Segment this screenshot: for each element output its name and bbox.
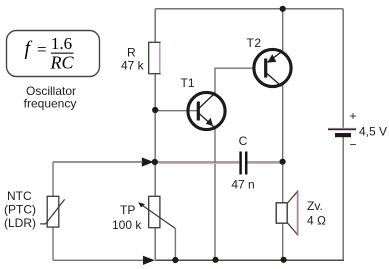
wire: NTC branch top horizontal [53,161,143,163]
svg-text:RC: RC [49,53,74,73]
wire: T1 emitter down to bottom rail [214,129,216,261]
TP wiper diagonal with arrowhead [141,204,176,228]
svg-text:(PTC): (PTC) [4,203,36,217]
wire: NTC branch left vertical lower [52,227,54,260]
svg-text:+: + [350,109,357,123]
wire: left rail upper (top rail to R) [154,9,156,43]
svg-text:47 k: 47 k [121,59,145,73]
wire: T2 collector down to speaker [282,86,284,204]
T1 emitter arrowhead [206,118,213,126]
node: junction top rail / T2 emitter [280,6,286,12]
wire: T1 base wire [155,110,197,112]
svg-text:NTC: NTC [7,189,32,203]
capacitor C1 (C 47n) [239,152,242,175]
wire: NTC branch bottom horizontal [53,259,144,261]
wire: right rail upper (top rail to battery +) [342,9,344,129]
formula f = 1.6/RC [25,34,75,73]
wire: T2 emitter from top rail [282,9,284,51]
node: junction T1 emitter / bottom rail [212,257,218,263]
node: junction left rail / C wire [152,159,158,165]
formula box [7,31,100,77]
battery B1 (4,5 V) [328,128,356,131]
transistor Q1 (T1, NPN) [188,92,225,129]
NTC diagonal with foot [40,199,64,224]
wire: C wire right segment (with violet underline) [247,162,281,164]
svg-text:4,5 V: 4,5 V [359,125,387,139]
thermistor NTC (PTC/LDR) [47,196,59,227]
wire: speaker bottom to bottom rail [282,223,284,260]
svg-text:100 k: 100 k [112,218,142,232]
T2 emitter arrowhead (points at base bar) [267,54,276,63]
wire: C wire left segment (with violet underline) [156,162,239,164]
svg-text:−: − [350,138,357,152]
svg-text:Zv.: Zv. [307,199,323,213]
wire: T2 base wire with corner down to T1 collector [215,68,254,93]
svg-text:47 n: 47 n [231,178,254,192]
svg-text:R: R [127,46,136,60]
node: junction speaker / bottom rail [281,257,287,263]
connection arrow into left-rail node [142,157,154,166]
wire: left rail (R bottom through junctions to TP top) [154,74,156,197]
speaker Zv. 4 ohm [276,203,287,223]
svg-text:1.6: 1.6 [51,34,72,53]
svg-text:(LDR): (LDR) [4,216,36,230]
wire: left rail bottom (TP bottom to bottom rail) [154,228,156,260]
wire: right rail lower (battery - to bottom rail) [342,137,344,261]
wire: top rail [155,8,343,10]
node: junction R/T1 base [152,107,158,113]
resistor R1 (R 47k) [149,42,160,73]
svg-text:C: C [239,134,248,148]
node: junction wiper / bottom rail [172,257,178,263]
svg-text:4 Ω: 4 Ω [307,214,326,228]
node: junction C / T2 collector / speaker [280,159,286,165]
svg-text:T2: T2 [247,36,262,50]
svg-text:T1: T1 [181,76,195,90]
wire: TP wiper vertical to bottom rail [174,229,176,261]
svg-text:frequency: frequency [24,97,77,111]
wire: bottom rail [155,259,344,261]
transistor Q2 (T2, PNP) [254,49,291,86]
potentiometer TP 100k [149,196,160,227]
connection arrow into bottom-rail corner [143,256,155,265]
svg-text:=: = [37,40,47,59]
wire: NTC branch left vertical upper [52,162,54,196]
svg-text:TP: TP [120,203,135,217]
